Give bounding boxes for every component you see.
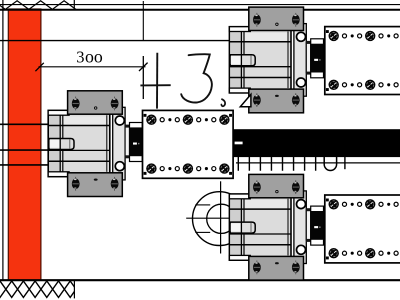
bottom hatch zigzag A [0,281,82,297]
rail bar under line [236,162,400,164]
top hatch zigzag [0,1,76,10]
centre mark inner circle [207,204,236,233]
rail plate P1 centre [143,110,234,178]
left extension line [2,0,4,280]
wall section (red) [8,9,41,280]
rail bar side view [233,129,400,157]
datum triangle mark [240,94,251,106]
handdrawn plus mark [156,53,158,109]
rail line upper [0,40,230,42]
centre mark outer circle [193,192,247,246]
top hatch end tick [73,0,75,10]
motor M1 centre [48,91,142,197]
dimension line 300 [39,66,146,68]
crosshair vertical [220,181,222,253]
bottom hatch zigzag B [0,281,82,297]
dimension extension line [142,1,144,41]
rail bar U cutout [324,157,336,170]
motor M3 bottom right [229,174,323,280]
rail plate P3 bottom right [325,195,400,263]
hub chord lines [195,204,210,206]
rail bar ticks [238,157,315,171]
rail lines middle left [0,123,49,125]
top support thin line [0,4,400,6]
crosshair horizontal [186,217,232,219]
svg-text:3oo: 3oo [76,46,103,66]
top support thick line [0,9,400,11]
rail plate P2 top right [325,27,400,95]
motor M2 top right [229,7,323,113]
bottom support thick line [0,279,400,281]
handdrawn comma [221,99,225,106]
rail bar last tick [344,157,346,169]
handdrawn digit 3 [181,54,212,102]
bottom hatch end tick [73,280,75,298]
